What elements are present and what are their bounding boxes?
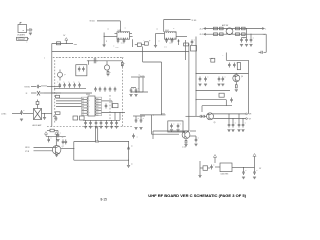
wire	[235, 82, 237, 85]
ground G1	[103, 45, 106, 47]
resistor R417	[56, 112, 61, 115]
wire	[56, 97, 82, 99]
svg-text:IF: IF	[26, 93, 28, 95]
wire	[195, 73, 248, 74]
svg-text:xxx: xxx	[82, 109, 84, 111]
wire	[133, 116, 145, 118]
resistor R402	[141, 40, 148, 45]
resistor R407	[237, 63, 240, 70]
node RX1	[199, 27, 205, 30]
capacitor C458	[73, 83, 76, 88]
svg-text:5R 401: 5R 401	[90, 20, 95, 22]
svg-text:U405 REG: U405 REG	[221, 174, 229, 176]
label rowv	[57, 82, 80, 84]
capacitor C437	[127, 147, 130, 150]
wire	[204, 28, 263, 30]
capacitor C464	[110, 121, 113, 129]
capacitor C450	[134, 118, 139, 129]
resistor R427	[219, 93, 224, 97]
label W1	[74, 44, 77, 46]
svg-text:xxxxx: xxxxx	[121, 43, 125, 45]
filter FL403	[76, 65, 87, 76]
resistor R403	[184, 43, 189, 51]
svg-text:Q5: Q5	[214, 122, 216, 124]
wire	[115, 112, 120, 120]
wire	[199, 161, 201, 175]
wire	[248, 60, 250, 114]
node B2	[25, 151, 30, 153]
svg-text:xxx: xxx	[72, 57, 74, 59]
node INJ2	[26, 93, 28, 95]
wire	[51, 44, 53, 127]
svg-text:xx xx: xx xx	[164, 47, 167, 49]
wire	[164, 20, 191, 32]
wire	[74, 159, 129, 161]
wire	[190, 136, 196, 139]
svg-text:xx: xx	[139, 75, 141, 77]
wire	[242, 118, 243, 122]
transistor Q401	[233, 75, 243, 82]
capacitor C443	[105, 121, 108, 129]
wire	[44, 92, 61, 94]
wire	[143, 47, 162, 115]
resistor R410	[47, 129, 58, 132]
svg-text:xxx: xxx	[82, 98, 84, 100]
svg-text:U401: U401	[118, 30, 122, 32]
node ANT1	[262, 27, 266, 30]
wire	[149, 34, 162, 46]
resistor R429	[56, 94, 60, 98]
power V7	[55, 132, 58, 137]
capacitor C427	[237, 123, 240, 132]
svg-text:xxx: xxx	[96, 109, 98, 111]
capacitor C468	[114, 87, 117, 92]
transistor Q405	[52, 146, 64, 155]
wire	[34, 146, 53, 148]
label LV1	[121, 43, 125, 45]
label ANT	[222, 24, 229, 27]
wire	[131, 87, 136, 89]
svg-text:P: P	[106, 41, 107, 43]
wire	[226, 59, 248, 61]
wire	[246, 28, 247, 38]
svg-text:xxx: xxx	[82, 106, 84, 108]
resistor R423	[113, 104, 119, 108]
wire	[42, 113, 52, 114]
capacitor C459	[78, 83, 81, 88]
ground G13	[43, 114, 46, 120]
capacitor C433	[20, 110, 25, 121]
wire	[136, 78, 143, 93]
svg-text:xx xxx: xx xxx	[182, 147, 186, 149]
wire	[250, 34, 251, 38]
label 5V	[259, 168, 262, 170]
label LV3	[169, 42, 173, 44]
resistor R408	[185, 139, 187, 143]
transformer T403	[104, 61, 109, 70]
wire	[131, 75, 145, 78]
node IFIN	[1, 114, 7, 116]
IC U404	[82, 94, 102, 116]
svg-text:xx xx: xx xx	[116, 47, 119, 49]
transistor Q403	[182, 131, 190, 139]
wire	[100, 141, 129, 143]
capacitor C422	[221, 77, 226, 86]
shield SH401	[47, 57, 133, 126]
ground G15	[198, 176, 201, 178]
label V1	[140, 76, 144, 78]
svg-text:xxx: xxx	[156, 29, 158, 31]
wire	[185, 40, 187, 60]
resistor R404	[211, 58, 215, 62]
capacitor C412	[240, 38, 247, 47]
svg-text:x xxx: x xxx	[209, 58, 213, 60]
label T5	[62, 137, 64, 139]
label N1	[161, 113, 165, 115]
inductor L401	[214, 27, 218, 35]
capacitor C447	[210, 165, 215, 170]
capacitor C421	[217, 77, 220, 86]
capacitor C442	[99, 121, 102, 129]
wire	[152, 115, 180, 134]
caption	[148, 193, 246, 198]
wire	[56, 105, 82, 107]
svg-text:J1 MIC: J1 MIC	[1, 114, 7, 116]
resistor R425	[80, 116, 85, 120]
svg-text:xxx: xxx	[96, 114, 98, 116]
capacitor C469	[132, 134, 138, 139]
capacitor C425	[227, 123, 230, 132]
IC U401	[115, 28, 133, 40]
label LV4	[107, 29, 115, 48]
svg-text:P: P	[65, 75, 66, 77]
svg-text:xxxx: xxxx	[74, 44, 77, 46]
svg-text:xxx: xxx	[96, 106, 98, 108]
label Y401	[17, 35, 25, 37]
capacitor C431	[194, 138, 199, 146]
node RX2	[199, 33, 205, 36]
capacitor C414	[249, 38, 254, 47]
svg-text:xxx: xxx	[82, 112, 84, 114]
transformer T401	[226, 28, 233, 35]
capacitor C461	[99, 87, 102, 92]
svg-text:xxx: xxx	[117, 57, 119, 59]
resistor R419	[57, 42, 61, 45]
svg-text:UHF RF BOARD VER C SCHEMATIC (: UHF RF BOARD VER C SCHEMATIC (PAGE 3 OF …	[148, 193, 246, 198]
svg-text:Q4: Q4	[241, 76, 243, 78]
node TP401	[90, 20, 95, 22]
wire	[52, 50, 189, 52]
capacitor C419	[204, 77, 209, 86]
wire	[153, 131, 189, 139]
wire	[97, 127, 99, 142]
ground G16	[55, 154, 58, 157]
filter FL401	[17, 37, 30, 43]
power VCC2	[213, 155, 216, 164]
label T	[44, 58, 45, 60]
resistor R428	[191, 44, 197, 51]
svg-text:xx: xx	[23, 30, 25, 32]
wire	[104, 33, 115, 45]
label Q403v	[182, 147, 186, 149]
op-amp U403	[34, 105, 42, 120]
wire	[186, 115, 199, 117]
svg-text:19.44MHZ: 19.44MHZ	[17, 35, 25, 37]
capacitor C418	[198, 77, 201, 86]
wire	[102, 111, 126, 113]
wire	[232, 118, 233, 122]
svg-text:xxx: xxx	[82, 103, 84, 105]
wire	[61, 148, 74, 149]
wire	[213, 113, 246, 115]
wire	[56, 103, 82, 105]
capacitor C432	[31, 85, 41, 88]
wire	[213, 118, 246, 120]
capacitor C426	[231, 123, 236, 132]
capacitor C408	[171, 38, 174, 43]
filter FL402	[168, 121, 183, 132]
wire	[195, 99, 226, 106]
power VCC3	[253, 154, 256, 171]
node B1	[25, 147, 30, 149]
wire	[188, 51, 190, 131]
wire	[263, 34, 267, 52]
wire	[52, 43, 73, 45]
power V6	[45, 132, 48, 137]
svg-text:xx: xx	[131, 164, 133, 166]
capacitor C416	[228, 63, 231, 68]
capacitor C452	[65, 139, 68, 144]
wire	[243, 167, 255, 168]
capacitor C460	[94, 87, 97, 92]
capacitor C415	[191, 40, 196, 45]
capacitor C428	[241, 123, 246, 132]
wire	[73, 142, 75, 161]
transistor Q404	[31, 91, 44, 96]
capacitor C466	[230, 98, 233, 103]
capacitor C453	[259, 51, 267, 54]
inductor L404	[220, 27, 224, 35]
wire	[202, 106, 232, 112]
capacitor C417	[233, 63, 238, 68]
inductor L402	[236, 27, 240, 35]
wire	[195, 37, 197, 117]
wire	[34, 150, 53, 152]
svg-text:xxx: xxx	[96, 98, 98, 100]
ground G12	[184, 145, 187, 147]
capacitor C444	[53, 116, 57, 121]
wire	[140, 114, 166, 115]
resistor R401	[135, 43, 141, 47]
capacitor C463	[105, 104, 108, 109]
svg-text:x: x	[265, 28, 266, 30]
wire	[87, 60, 122, 64]
wire	[131, 77, 148, 93]
label row1	[58, 57, 119, 59]
svg-text:xxxxx: xxxxx	[169, 42, 173, 44]
node ANT2	[264, 34, 266, 36]
ground G2	[154, 45, 157, 47]
wire	[223, 53, 227, 61]
wire	[56, 100, 82, 102]
wire	[97, 21, 120, 32]
svg-text:xx: xx	[131, 146, 133, 148]
wire	[23, 113, 33, 115]
svg-text:J2-2: J2-2	[199, 34, 203, 36]
resistor R424	[73, 116, 78, 120]
capacitor C456	[63, 83, 66, 88]
resistor R418	[200, 166, 210, 171]
capacitor C401	[29, 28, 33, 35]
label C90	[131, 146, 133, 166]
wire	[83, 119, 120, 121]
svg-text:x xxx: x xxx	[161, 113, 165, 115]
capacitor C448	[242, 168, 247, 179]
capacitor C455	[59, 83, 62, 88]
ground G14	[127, 166, 130, 168]
inductor L403	[41, 86, 47, 87]
wire	[195, 90, 230, 91]
inductor L405	[242, 27, 246, 35]
resistor R409	[36, 100, 39, 105]
capacitor C436	[62, 139, 65, 144]
capacitor C439	[84, 121, 87, 129]
capacitor C457	[68, 83, 71, 88]
power V5	[63, 35, 68, 44]
wire	[128, 141, 129, 165]
svg-text:U402: U402	[165, 30, 169, 32]
svg-text:xxx: xxx	[82, 101, 84, 103]
capacitor C435	[47, 136, 52, 142]
capacitor C445	[129, 88, 134, 96]
page number	[101, 198, 108, 202]
svg-text:xxx: xxx	[88, 57, 90, 59]
capacitor C434	[56, 131, 61, 142]
node OUT2	[246, 118, 252, 121]
wire	[74, 141, 96, 143]
resistor R416	[107, 70, 111, 76]
svg-text:xxx: xxx	[96, 112, 98, 114]
node OUT1	[246, 113, 252, 116]
capacitor C430	[176, 124, 181, 132]
label LV5	[156, 28, 175, 31]
capacitor C402	[116, 38, 120, 49]
svg-text:U404: U404	[86, 94, 90, 96]
transformer T402	[58, 70, 66, 81]
svg-text:RX INJ: RX INJ	[25, 86, 31, 88]
IC U402	[162, 30, 187, 39]
wire	[46, 136, 66, 145]
ground G17	[235, 90, 238, 92]
wire	[130, 37, 133, 48]
resistor R420	[121, 61, 125, 67]
wire	[95, 127, 97, 142]
capacitor C462	[104, 87, 107, 92]
capacitor C454	[94, 58, 98, 63]
capacitor C413	[245, 38, 248, 47]
node 5T	[192, 20, 197, 22]
label VCO	[209, 58, 213, 60]
svg-text:8-15: 8-15	[101, 198, 108, 202]
capacitor C429	[170, 124, 175, 132]
capacitor C446	[134, 88, 139, 96]
svg-text:Q7: Q7	[62, 146, 64, 148]
label U403	[33, 124, 42, 127]
capacitor C424	[199, 115, 207, 118]
capacitor C449	[253, 170, 258, 179]
wire	[54, 87, 86, 89]
wire	[47, 86, 61, 88]
wire	[178, 39, 180, 45]
wire	[52, 92, 92, 94]
label LV2	[158, 41, 160, 43]
wire	[228, 113, 229, 122]
wire	[190, 130, 196, 132]
capacitor C407	[164, 38, 168, 49]
wire	[102, 101, 113, 108]
wire	[204, 33, 263, 35]
capacitor C441	[94, 121, 97, 129]
svg-text:P: P	[149, 41, 150, 43]
capacitor C465	[115, 121, 118, 129]
transistor Q402	[207, 113, 216, 124]
svg-text:xxx: xxx	[96, 101, 98, 103]
svg-text:xxx: xxx	[96, 103, 98, 105]
IC U405	[215, 163, 244, 176]
capacitor C451	[139, 118, 144, 129]
capacitor C440	[89, 121, 92, 129]
node INJ1	[25, 86, 31, 88]
svg-text:xxx: xxx	[103, 57, 105, 59]
svg-text:T: T	[44, 58, 45, 60]
resistor R426	[235, 84, 237, 88]
wire	[238, 113, 239, 122]
svg-text:xxx: xxx	[107, 29, 109, 31]
capacitor Cmid	[96, 140, 100, 143]
capacitor C403	[123, 38, 126, 43]
wire	[12, 113, 20, 115]
svg-text:J2-1: J2-1	[199, 28, 203, 30]
crystal Y401	[18, 22, 29, 32]
svg-text:xxx: xxx	[58, 57, 60, 59]
capacitor C467	[109, 87, 112, 92]
svg-text:5T 401: 5T 401	[192, 20, 197, 22]
